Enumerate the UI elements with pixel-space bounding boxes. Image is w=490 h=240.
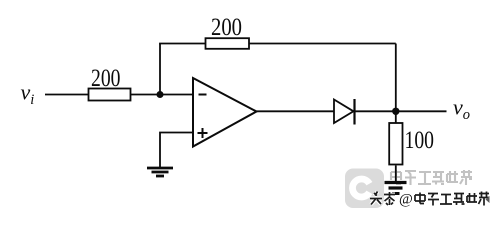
wire node A up to feedback — [159, 44, 161, 95]
wire R1 to op-amp inverting input through node A — [131, 94, 194, 96]
wire feedback top left segment — [159, 43, 206, 45]
resistor R2 value 200 (feedback) — [206, 14, 250, 49]
wire R3 bottom to ground — [395, 166, 397, 182]
node A junction dot — [157, 91, 164, 98]
resistor R3 value 100 — [389, 123, 434, 165]
wire input vi to R1 — [45, 94, 89, 96]
svg-text:100: 100 — [405, 127, 435, 154]
resistor R1 value 200 — [89, 65, 131, 101]
wire node B down to R3 — [395, 111, 397, 123]
wire op-amp output to diode D1 — [257, 110, 335, 112]
svg-text:vo: vo — [453, 95, 470, 124]
watermark dark text halo — [370, 192, 489, 206]
svg-text:200: 200 — [211, 14, 242, 41]
svg-text:200: 200 — [91, 65, 121, 92]
ground (output load) — [385, 183, 407, 194]
wire diode to node B — [356, 110, 396, 112]
svg-text:vi: vi — [21, 80, 35, 109]
watermark arrow mark — [486, 196, 490, 203]
watermark dark text (TouTiao handle) — [370, 192, 489, 206]
node B junction dot — [392, 108, 399, 115]
ground (non-inverting input) — [147, 168, 173, 176]
svg-text:@: @ — [399, 192, 413, 208]
op-amp U1 — [193, 78, 257, 147]
watermark logo (EEWorld) — [345, 169, 384, 209]
watermark faint text (电子工程世界) — [391, 170, 472, 185]
wire node B to vo — [396, 110, 447, 112]
wire feedback right vertical down to node B — [395, 44, 397, 112]
diode D1 — [334, 99, 355, 125]
wire op-amp non-inverting input — [160, 133, 193, 168]
wire feedback top right segment — [249, 43, 396, 45]
